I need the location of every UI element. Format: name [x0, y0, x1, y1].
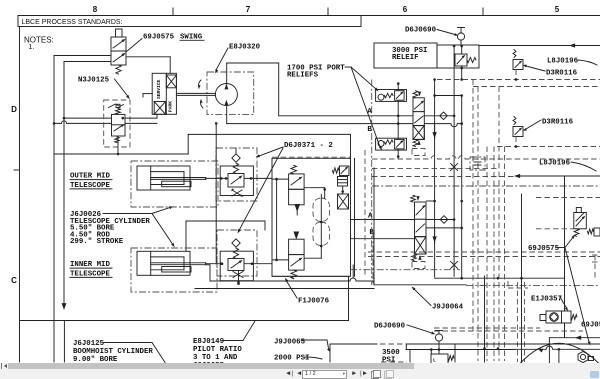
- svg-text:2000 PSI: 2000 PSI: [274, 355, 309, 363]
- svg-text:E8J0320: E8J0320: [229, 44, 261, 52]
- svg-text:BOOMHOIST CYLINDER: BOOMHOIST CYLINDER: [73, 348, 153, 356]
- svg-text:1.: 1.: [29, 44, 35, 51]
- svg-text:8: 8: [93, 5, 98, 14]
- svg-text:LBCE PROCESS STANDARDS:: LBCE PROCESS STANDARDS:: [22, 19, 123, 26]
- svg-text:69J0575: 69J0575: [143, 34, 175, 42]
- svg-text:L8J0196: L8J0196: [547, 58, 579, 66]
- svg-text:D6J0690: D6J0690: [374, 323, 406, 331]
- svg-text:299." STROKE: 299." STROKE: [70, 238, 124, 246]
- svg-text:J9J0064: J9J0064: [432, 304, 464, 312]
- svg-text:D6J0690: D6J0690: [405, 27, 437, 35]
- svg-text:E8J0149: E8J0149: [193, 338, 224, 346]
- svg-text:3 TO 1 AND: 3 TO 1 AND: [193, 354, 238, 362]
- svg-text:L8J0196: L8J0196: [539, 160, 571, 168]
- svg-text:D3R0116: D3R0116: [542, 119, 574, 127]
- svg-text:5: 5: [555, 5, 560, 14]
- svg-text:D: D: [11, 105, 17, 114]
- svg-text:SERVICE: SERVICE: [156, 79, 162, 99]
- svg-text:6: 6: [403, 5, 408, 14]
- svg-text:J6J0125: J6J0125: [73, 340, 105, 348]
- svg-text:RELEIF: RELEIF: [392, 54, 419, 62]
- svg-text:D3R0116: D3R0116: [546, 70, 578, 78]
- svg-text:7: 7: [246, 5, 251, 14]
- svg-text:69J057: 69J057: [581, 322, 600, 330]
- svg-text:RELIEFS: RELIEFS: [287, 72, 319, 80]
- svg-text:D6J0371 - 2: D6J0371 - 2: [284, 142, 333, 150]
- svg-text:E1J0357: E1J0357: [531, 296, 562, 304]
- svg-text:C: C: [11, 276, 17, 285]
- svg-text:PARK: PARK: [168, 101, 174, 112]
- svg-text:69J0575: 69J0575: [528, 245, 560, 253]
- svg-text:PILOT RATIO: PILOT RATIO: [193, 346, 242, 354]
- svg-text:F1J0076: F1J0076: [298, 298, 330, 306]
- svg-text:N3J0125: N3J0125: [78, 77, 110, 85]
